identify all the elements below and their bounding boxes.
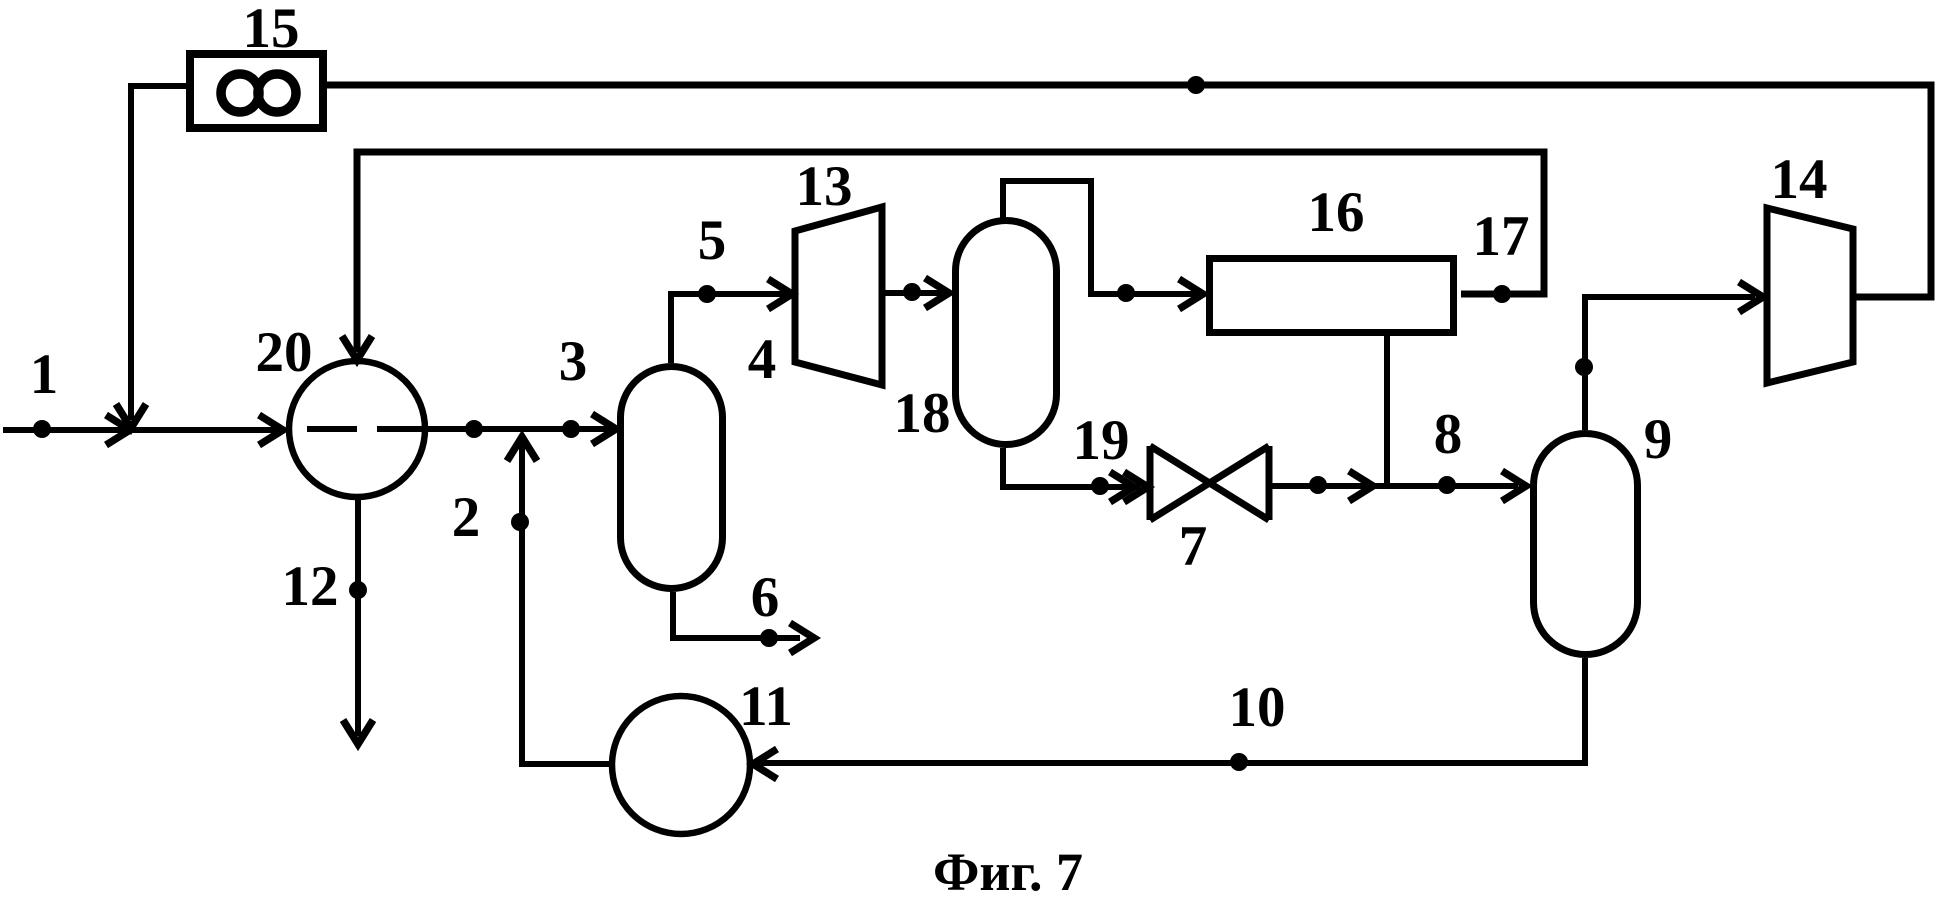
wire: compressor 13 to vessel 18 bbox=[882, 290, 942, 296]
wire: line 2 riser from pump 11 up into stream 3 bbox=[522, 442, 610, 764]
svg-text:9: 9 bbox=[1644, 408, 1673, 471]
wire: mixer 20 bottom purge (stream 12) bbox=[355, 497, 361, 736]
svg-text:7: 7 bbox=[1179, 515, 1208, 578]
arrowhead into turbine 14 bbox=[1739, 282, 1763, 312]
svg-text:11: 11 bbox=[739, 675, 793, 738]
wire: vessel 18 top over to heat exchanger 16 bbox=[1003, 181, 1198, 294]
block 15 bbox=[190, 54, 323, 128]
svg-text:19: 19 bbox=[1073, 409, 1130, 472]
heat exchanger 16 bbox=[1210, 259, 1454, 333]
svg-text:15: 15 bbox=[243, 0, 300, 60]
wire: valve 7 to vessel 9 (stream 8) bbox=[1269, 483, 1518, 489]
wire: vessel 3 bottom discharge (stream 6) bbox=[673, 592, 800, 638]
node 1 bbox=[33, 420, 51, 438]
wire: block 15 left down to feed line bbox=[131, 86, 188, 420]
node 13-18 bbox=[903, 283, 921, 301]
wire: recycle line into mixer 20 top, from line 17 riser bbox=[357, 152, 1544, 352]
pump 11 bbox=[612, 696, 750, 834]
svg-text:8: 8 bbox=[1434, 403, 1463, 466]
arrowhead into mixer 20 top bbox=[342, 336, 372, 360]
compressor 13 bbox=[795, 207, 882, 385]
arrowhead left into pump 11 bbox=[753, 749, 777, 779]
wire: vessel 9 top to turbine 14 bbox=[1585, 297, 1755, 430]
node 3b bbox=[562, 420, 580, 438]
node 5 bbox=[698, 285, 716, 303]
node 10 bbox=[1230, 753, 1248, 771]
svg-text:17: 17 bbox=[1473, 205, 1530, 268]
svg-text:14: 14 bbox=[1771, 148, 1828, 211]
wire: heat exchanger 16 bottom down to stream 8 bbox=[1384, 333, 1390, 486]
infinity symbol inside block 15 bbox=[221, 74, 259, 112]
node 8 bbox=[1438, 476, 1456, 494]
valve 7 bbox=[1150, 446, 1269, 520]
node on riser bbox=[1575, 358, 1593, 376]
arrowhead down into feed junction bbox=[116, 404, 146, 428]
node 2 bbox=[511, 513, 529, 531]
wire: turbine 14 output to top return line into block 15 bbox=[325, 85, 1931, 297]
arrowhead into compressor 13 bbox=[768, 279, 792, 309]
double arrowhead into valve 7 bbox=[1110, 472, 1134, 502]
dashes inside mixer 20 bbox=[307, 426, 424, 432]
arrowhead stream 6 bbox=[790, 623, 814, 653]
arrowhead up at junction with stream 3 bbox=[507, 437, 537, 461]
svg-text:10: 10 bbox=[1229, 676, 1286, 739]
mixer 20 bbox=[289, 361, 425, 497]
svg-text:Фиг. 7: Фиг. 7 bbox=[933, 842, 1083, 897]
vessel 18 bbox=[956, 221, 1057, 445]
svg-text:20: 20 bbox=[256, 321, 313, 384]
node before 16 bbox=[1117, 284, 1135, 302]
svg-text:5: 5 bbox=[698, 209, 727, 272]
node 3a bbox=[465, 420, 483, 438]
wire: vessel 18 bottom to valve 7 (stream 19) bbox=[1003, 448, 1140, 487]
svg-text:6: 6 bbox=[751, 566, 780, 629]
wire: vessel 9 bottom to pump 11 (stream 10) bbox=[758, 658, 1585, 763]
svg-text:1: 1 bbox=[30, 343, 59, 406]
wire: mixer 20 to vessel 3 (stream 3) bbox=[424, 426, 610, 432]
node 6 bbox=[760, 629, 778, 647]
svg-text:13: 13 bbox=[796, 155, 853, 218]
arrowhead into mixer 20 bbox=[259, 415, 283, 445]
wire: vessel 3 top to compressor 13 (stream 5) bbox=[671, 294, 786, 363]
turbine 14 bbox=[1767, 208, 1853, 383]
arrowhead at junction with 16 downcomer bbox=[1349, 471, 1373, 501]
svg-text:16: 16 bbox=[1308, 181, 1365, 244]
node after valve bbox=[1309, 476, 1327, 494]
svg-text:4: 4 bbox=[748, 328, 777, 391]
arrowhead into vessel 9 bbox=[1502, 471, 1526, 501]
svg-text:2: 2 bbox=[452, 486, 481, 549]
arrowhead on feed line at junction bbox=[106, 415, 130, 445]
svg-text:3: 3 bbox=[559, 330, 588, 393]
arrowhead into heat exchanger 16 bbox=[1179, 279, 1203, 309]
arrowhead into vessel 18 bbox=[925, 278, 949, 308]
vessel 3 bbox=[621, 367, 723, 589]
vessel 9 bbox=[1534, 434, 1638, 655]
node 17 bbox=[1493, 285, 1511, 303]
wire: feed line 1 bbox=[3, 427, 280, 433]
node 19 bbox=[1091, 477, 1109, 495]
arrowhead down stream 12 bbox=[343, 720, 373, 744]
svg-text:12: 12 bbox=[282, 555, 339, 618]
arrowhead into vessel 3 bbox=[592, 414, 616, 444]
svg-text:18: 18 bbox=[894, 382, 951, 445]
node on top return line bbox=[1187, 76, 1205, 94]
node 12 bbox=[349, 581, 367, 599]
